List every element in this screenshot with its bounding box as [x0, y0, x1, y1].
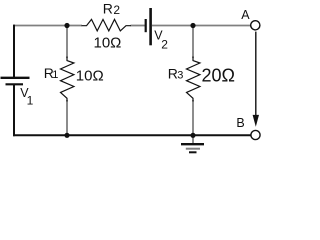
- svg-text:B: B: [236, 116, 244, 130]
- svg-text:3: 3: [177, 70, 183, 82]
- svg-text:1: 1: [52, 69, 58, 81]
- svg-text:10Ω: 10Ω: [76, 68, 104, 85]
- svg-text:10Ω: 10Ω: [94, 35, 122, 52]
- svg-text:20Ω: 20Ω: [202, 66, 235, 86]
- svg-text:R: R: [168, 65, 178, 81]
- svg-text:2: 2: [113, 3, 120, 17]
- svg-text:2: 2: [161, 38, 168, 52]
- svg-text:A: A: [241, 8, 250, 22]
- svg-text:R: R: [103, 1, 113, 17]
- svg-text:1: 1: [27, 94, 34, 108]
